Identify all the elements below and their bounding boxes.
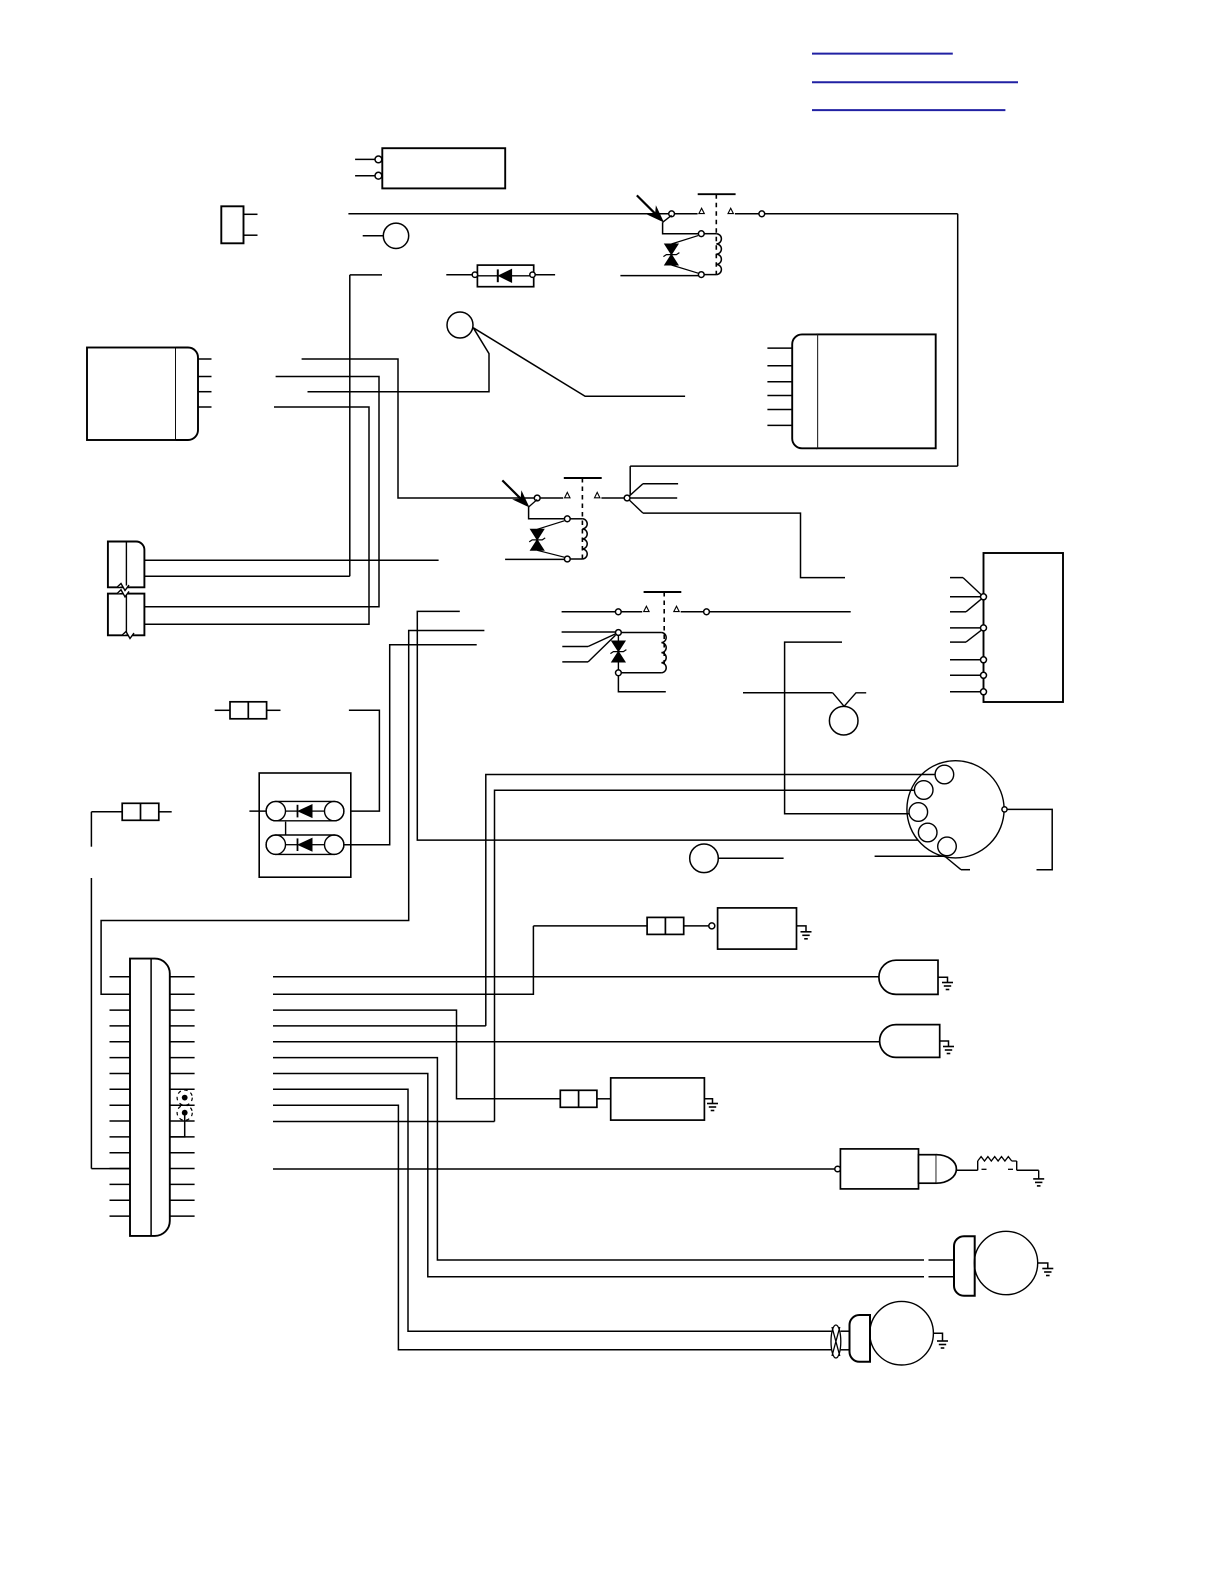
ignition coil terminal [835, 1166, 841, 1172]
wire to lamp G [743, 692, 833, 694]
wire K3 to H1 lower [950, 611, 966, 613]
wire to relay K1 common [348, 213, 668, 215]
lamp G support [833, 693, 867, 707]
lamp C [383, 223, 408, 248]
ECU pin 6 [767, 424, 792, 426]
wire K2 branch up-right [630, 484, 644, 496]
wire M w3 to fuse F3 [273, 1010, 560, 1099]
pickup coil E [447, 312, 473, 338]
ground N3 lead [797, 926, 807, 932]
wire to relay K3 coil C [562, 661, 588, 663]
terminal N3 [709, 923, 715, 929]
wire LP2 hi tail [841, 1330, 850, 1332]
wire to relay K3 coil A [562, 631, 616, 633]
wire K2 contact links [540, 497, 563, 499]
relay K2 coil bottom terminal [564, 556, 570, 562]
relay K1 dashed link [715, 194, 717, 274]
wire to H1 middle [950, 596, 981, 598]
relay K2 transorb link bottom [537, 550, 564, 557]
fuse F1 lead right [267, 709, 281, 711]
transorb Z3 link top [617, 636, 619, 641]
wire F5 to terminal [684, 925, 709, 927]
wire M w6 to lamp LP1 hi [273, 1058, 924, 1260]
diode D1 box [477, 265, 533, 287]
box H terminal 4 [981, 672, 987, 678]
lamp LP2 bulb [870, 1301, 934, 1365]
relay K1 arrow [637, 195, 656, 214]
connector M right pin 1 [170, 976, 195, 978]
ground S2 lead [940, 1041, 949, 1047]
connector M left pin 12 [110, 1152, 131, 1154]
connector M right pin 9 [170, 1104, 195, 1106]
lamp LP1 base [954, 1236, 975, 1296]
pin B2 [244, 234, 258, 236]
ECU pin 2 [767, 365, 792, 367]
cap socket 1 [935, 765, 954, 784]
connector M right pin 16 [170, 1215, 195, 1217]
wire cap socket5 lead [875, 855, 945, 857]
connector M right pin 6 [170, 1057, 195, 1059]
wire right bus down [957, 214, 959, 466]
connector M body [130, 959, 170, 1236]
connector M left pin 9 [110, 1104, 131, 1106]
fuse F2 [122, 803, 159, 820]
ground N3 [801, 931, 812, 933]
wire F3 to box N2 [597, 1098, 611, 1100]
wire bus X1 vertical [349, 275, 351, 576]
wire LP2 lo tail [841, 1349, 850, 1351]
diode D1 symbol [478, 275, 498, 277]
connector M left pin 7 [110, 1073, 131, 1075]
relay K2 coil top terminal [564, 516, 570, 522]
connector CN2 inner line [125, 594, 127, 636]
wire cap terminal loop [1007, 809, 1052, 869]
transorb Z1 [665, 244, 678, 255]
diode D1 anode lead [446, 274, 472, 276]
pin J4 [198, 406, 212, 408]
relay K2 dashed link [581, 478, 583, 559]
lamp G bulb [829, 706, 858, 735]
ground LP1 [1042, 1268, 1053, 1270]
ignition coil tower [919, 1155, 937, 1184]
wire M pin2 loop [101, 631, 484, 995]
wire M w2 riser [273, 926, 533, 994]
lamp LP1 bulb [974, 1231, 1037, 1294]
relay K3 NO terminal [704, 609, 710, 615]
relay K1 transorb link top [671, 236, 698, 244]
ground N2 lead [704, 1099, 712, 1104]
wire M w10 riser to cap [273, 1121, 495, 1123]
connector M left pin 11 [110, 1136, 131, 1138]
relay K3 contact gap triangles [644, 606, 649, 611]
transorb Z3 [612, 641, 625, 652]
fuse F2 lead right [159, 811, 172, 813]
cap center terminal [1002, 807, 1007, 812]
wire K3 contact links [622, 611, 643, 613]
pin J2 [198, 376, 212, 378]
relay K3 coil [622, 632, 662, 634]
fuse F1 [230, 702, 267, 719]
wire J3 to pickup E [308, 328, 490, 392]
diode D1 terminal left [472, 272, 477, 277]
box H terminal 2 [981, 625, 987, 631]
connector M right pin 15 [170, 1199, 195, 1201]
relay K1 coil top terminal [698, 231, 704, 237]
wire pill2 to bus [344, 645, 477, 845]
connector M right pin 7 [170, 1073, 195, 1075]
relay K2 arm [529, 500, 538, 508]
pin J1 [198, 358, 212, 360]
wire cap socket4 feed [417, 611, 918, 840]
wire M w4 riser to cap [273, 1025, 486, 1027]
transorb Z3 link bottom [617, 662, 619, 670]
ballast tick left [982, 1168, 987, 1170]
wire K2 arm to coil [529, 507, 564, 519]
diode module box [259, 773, 351, 877]
ECU box I nose [792, 334, 817, 448]
relay K2 transorb link top [537, 521, 564, 530]
wire to relay K2 coil low [505, 558, 564, 560]
ECU pin 3 [767, 381, 792, 383]
crossover symbol [831, 1325, 841, 1358]
pin B1 [244, 213, 258, 215]
cap socket 3 [909, 803, 928, 822]
wire lamp L [718, 857, 783, 859]
terminal A1 [375, 156, 382, 163]
connector M right pin 5 [170, 1041, 195, 1043]
cap socket 5 [938, 837, 957, 856]
fuse F3 [560, 1090, 597, 1107]
wire cap socket1 feed [486, 775, 935, 1026]
connector M right pin 10 [170, 1120, 195, 1122]
component box H [984, 553, 1064, 702]
connector M right pin 14 [170, 1183, 195, 1185]
relay K1 coil bottom terminal [698, 272, 704, 278]
wire to H3 [950, 659, 981, 661]
wire M w13 to ignition coil [273, 1168, 835, 1170]
wire cap socket2 feed [495, 790, 915, 1121]
diode module inner link [285, 822, 287, 835]
relay K1 arm [663, 215, 672, 222]
wire to lamp C [363, 235, 384, 237]
wire lamp G to box H [950, 691, 981, 693]
wire to fuse F5 [533, 925, 647, 927]
wire to relay K2 NO [630, 465, 958, 467]
relay K3 dashed link [663, 592, 665, 666]
wire bus to connector M [91, 1168, 130, 1170]
bus to distributor cap c3 [785, 642, 909, 814]
wire M w8 to lamp LP2 hi [273, 1089, 831, 1331]
wire F2 to ground bus [91, 811, 122, 813]
wire to H2 straight [950, 627, 981, 629]
box H terminal 3 [981, 657, 987, 663]
fuse F5 [647, 917, 684, 934]
connector M right pin 2 [170, 993, 195, 995]
component box B [221, 206, 243, 243]
connector M right pin 8 [170, 1088, 195, 1090]
diode pill 2 circles [266, 835, 285, 854]
ECU pin 4 [767, 395, 792, 397]
connector M left pin 1 [110, 976, 131, 978]
wire shield drain [170, 1113, 185, 1137]
relay K1 common terminal [669, 211, 675, 217]
wire K1 arm to coil [663, 222, 698, 233]
wire F1 to diode module [344, 710, 380, 811]
ballast tick right [1008, 1168, 1013, 1170]
wire to H4 [950, 674, 981, 676]
wire M w5 to sensor S2 [273, 1041, 880, 1043]
ignition coil body [840, 1149, 918, 1189]
relay K2 coil [571, 518, 583, 520]
wire J1 to relay K2 [302, 359, 534, 498]
connector M left pin 6 [110, 1057, 131, 1059]
connector CN1 body [108, 542, 144, 588]
wire into diode module [249, 810, 266, 812]
wire K1 output [765, 213, 958, 215]
lamp L bulb [690, 844, 719, 873]
relay K1 contact gap triangles [699, 208, 704, 213]
wire K3 output [710, 611, 851, 613]
connector CN2 break mark bottom [122, 632, 134, 639]
box H terminal 1 [981, 594, 987, 600]
relay K3 common terminal [615, 609, 621, 615]
connector M right pin 4 [170, 1025, 195, 1027]
ground coil lead [1017, 1169, 1039, 1171]
wire E to ECU pin [473, 328, 685, 397]
box H terminal 5 [981, 689, 987, 695]
lamp LP2 base [850, 1315, 871, 1362]
relay K1 frame bar [698, 193, 736, 195]
wire M w9 to lamp LP2 lo [273, 1105, 831, 1350]
connector M right pin 3 [170, 1009, 195, 1011]
wire to relay K1 coil low [620, 275, 698, 277]
connector M left pin 13 [110, 1168, 131, 1170]
diode pill 1 [266, 801, 344, 820]
pin J3 [198, 391, 212, 393]
ground LP2 lead [933, 1333, 942, 1341]
wire to H2 diag [950, 641, 966, 643]
wire LP1 lo tail [929, 1276, 955, 1278]
diode pill 1 diode [286, 810, 298, 812]
diode pill 2 [266, 835, 344, 854]
fuse F1 lead left [215, 709, 230, 711]
wire K2 to H1 upper [950, 577, 963, 579]
ground S1 [942, 982, 953, 984]
transorb Z2 [531, 529, 544, 540]
relay K3 coil top terminal [616, 630, 622, 636]
wire LP1 hi tail [929, 1259, 955, 1261]
wire to relay K3 coil B [562, 646, 588, 648]
connector M left pin 2 [110, 993, 131, 995]
wire J2 to CN2 [144, 377, 379, 607]
connector M left pin 8 [110, 1088, 131, 1090]
cap socket 2 [914, 781, 933, 800]
connector box J nose [176, 348, 198, 441]
wire to relay K3 common [562, 611, 616, 613]
connector M right pin 12 [170, 1152, 195, 1154]
component box N2 [611, 1078, 705, 1120]
ground N2 [707, 1103, 718, 1105]
ECU box I body [817, 334, 936, 448]
sensor S1 body [879, 960, 938, 994]
connector M left pin 3 [110, 1009, 131, 1011]
connector CN1 inner line [125, 542, 127, 588]
diode D1 terminal right [530, 272, 535, 277]
ground S1 lead [938, 977, 948, 982]
connector M inner line [150, 959, 152, 1236]
ballast resistor [978, 1157, 1012, 1161]
connector M right pin 13 [170, 1168, 195, 1170]
shield dot A [177, 1090, 192, 1105]
cap socket 4 [918, 823, 937, 842]
ignition coil nose [936, 1155, 956, 1184]
wire K2 branch straight [630, 497, 677, 499]
connector CN2 body [108, 594, 144, 636]
wire cap socket5 diag [945, 857, 961, 870]
wire K3 coil low [618, 676, 665, 692]
connector CN2 break mark top [117, 590, 129, 597]
distributor cap body [907, 761, 1004, 858]
relay K2 arrow [502, 480, 521, 499]
ground coil [1033, 1178, 1044, 1180]
wire bus X1 top [350, 274, 382, 276]
relay K3 coil bottom terminal [616, 670, 622, 676]
bus left vertical a [90, 812, 92, 847]
shield dot B [177, 1105, 192, 1120]
wire K1 contact links [675, 213, 698, 215]
ground LP2 [937, 1340, 948, 1342]
component box A [382, 148, 505, 188]
bus left vertical b [90, 878, 92, 1169]
hyperlink underline 1 [812, 53, 953, 55]
relay K1 coil [705, 233, 717, 235]
sensor S2 body [880, 1025, 940, 1058]
connector M left pin 10 [110, 1120, 131, 1122]
hyperlink underline 3 [812, 109, 1005, 111]
wire drop to K2 NO [629, 466, 631, 495]
ECU pin 5 [767, 409, 792, 411]
connector box J body [87, 348, 176, 441]
connector M left pin 4 [110, 1025, 131, 1027]
ECU pin 1 [767, 347, 792, 349]
relay K1 NO terminal [759, 211, 765, 217]
diode D1 cathode lead [535, 274, 555, 276]
connector M left pin 16 [110, 1215, 131, 1217]
connector M left pin 14 [110, 1183, 131, 1185]
hyperlink underline 2 [812, 81, 1018, 83]
diode pill 2 diode [286, 844, 298, 846]
relay K3 frame bar [644, 591, 682, 593]
relay K1 transorb link bottom [671, 265, 698, 273]
wire CN1 pin2 to bus X1 [144, 575, 349, 577]
wire CN1 pin1 [144, 559, 438, 561]
wire K2 branch down-right [630, 500, 644, 513]
component box N3 [718, 908, 797, 949]
wire M w1 to sensor S1 [273, 976, 881, 978]
wire J4 to CN2 [144, 407, 369, 624]
relay K2 frame bar [564, 477, 602, 479]
diode pill 1 circles [266, 801, 285, 820]
relay K2 contact gap triangles [565, 492, 570, 497]
wire M w7 to lamp LP1 lo [273, 1074, 924, 1277]
connector M right pin 11 [170, 1136, 195, 1138]
terminal A2 [375, 172, 382, 179]
connector M left pin 5 [110, 1041, 131, 1043]
ground S2 [943, 1046, 954, 1048]
connector M left pin 15 [110, 1199, 131, 1201]
ground LP1 lead [1038, 1263, 1048, 1269]
relay K2 common terminal [534, 495, 540, 501]
relay K2 NO terminal [624, 495, 630, 501]
ballast resistor lead [957, 1169, 978, 1171]
connector CN1 break mark [117, 584, 129, 591]
